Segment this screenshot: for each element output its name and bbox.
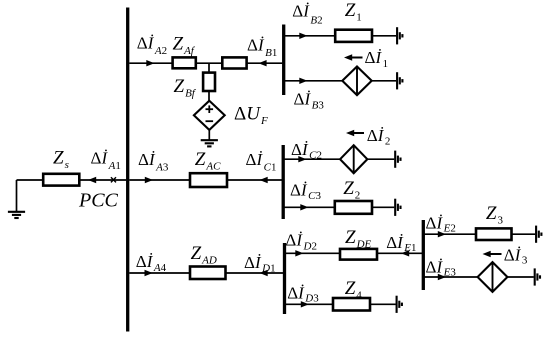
wire: Z_DE to bus E (377, 252, 422, 254)
arrow dI_3 free (488, 253, 502, 255)
arrow dI_E1 (401, 250, 409, 256)
arrow dI_C1 (260, 177, 268, 183)
resistor Z1 (335, 30, 372, 42)
resistor Z_Af (173, 57, 196, 68)
svg-text:ZAC: ZAC (195, 149, 221, 173)
svg-text:ZAD: ZAD (191, 243, 217, 267)
wire: source branch to PCC (17, 179, 44, 181)
wire: Z_AC to bus C (227, 179, 282, 181)
ground: E3 (534, 268, 536, 285)
wire: D2 branch (286, 252, 340, 254)
wire: source to ground (208, 130, 210, 140)
arrow dI_A4 (145, 270, 153, 276)
svg-text:Zs: Zs (53, 148, 69, 172)
wire: C2 branch (285, 158, 341, 160)
svg-text:ΔİC1: ΔİC1 (246, 150, 277, 174)
svg-text:ΔİD2: ΔİD2 (285, 231, 317, 253)
arrow dI_A1 (88, 177, 96, 183)
wire: Z1 to ground (372, 35, 396, 37)
wire: source to ground B3 (372, 80, 397, 82)
resistor Z_Bf vertical (203, 73, 215, 91)
wire: PCC to Z_AD (129, 272, 190, 274)
svg-text:Z4: Z4 (345, 278, 363, 302)
svg-text:ΔİA4: ΔİA4 (136, 252, 167, 274)
svg-text:ΔİD3: ΔİD3 (287, 284, 319, 305)
wire: Z_Bf to source (208, 91, 210, 101)
source dI_3 diamond (478, 262, 508, 292)
ground: B2 (396, 27, 398, 44)
svg-text:ΔİA3: ΔİA3 (138, 150, 169, 174)
resistor Z_DE (340, 249, 377, 260)
ground: E2 (535, 226, 537, 243)
svg-text:ΔİE2: ΔİE2 (426, 214, 456, 235)
resistor Z_AC (190, 173, 227, 187)
bus C (282, 145, 285, 219)
arrow dI_D3 (301, 301, 309, 307)
resistor fault second box (222, 57, 246, 68)
resistor Z2 (335, 201, 372, 214)
wire: Z_Af to fault node (196, 62, 223, 64)
breaker X mark (111, 177, 116, 182)
arrow dI_E2 (438, 231, 446, 237)
wire: E2 branch (425, 233, 477, 235)
source dI_2 diamond (340, 145, 367, 173)
svg-text:Δİ1: Δİ1 (365, 48, 389, 70)
wire: B2 branch (285, 35, 335, 37)
wire: E3 branch (425, 276, 478, 278)
ground: B3 (396, 72, 398, 89)
wire: D3 branch (286, 303, 333, 305)
resistor Z3 (476, 228, 512, 240)
svg-text:ΔİC2: ΔİC2 (291, 140, 322, 162)
svg-text:ΔİB1: ΔİB1 (247, 36, 277, 60)
bus B (282, 25, 285, 96)
wire: C3 branch (285, 206, 335, 208)
svg-text:Z2: Z2 (343, 178, 360, 202)
wire: second box to bus B (247, 62, 283, 64)
svg-text:ΔİA1: ΔİA1 (91, 149, 121, 173)
arrow dI_2 free (351, 132, 364, 134)
svg-text:Δİ3: Δİ3 (504, 246, 528, 267)
resistor Z4 (333, 298, 370, 311)
arrow dI_E3 (438, 274, 446, 280)
bus E (422, 220, 425, 290)
ground: D3 (396, 296, 398, 313)
svg-text:Δİ2: Δİ2 (367, 126, 391, 148)
arrow dI_A3 (145, 177, 153, 183)
resistor Z_AD (190, 267, 226, 280)
wire: Z_AD to bus D (226, 272, 284, 274)
ground: C2 (394, 151, 396, 168)
wire: Z3 to ground (512, 233, 536, 235)
arrow dI_B2 (299, 33, 307, 39)
svg-text:ZBf: ZBf (174, 76, 197, 100)
svg-text:ZDE: ZDE (345, 227, 372, 251)
wire: fault node drop (208, 63, 210, 72)
wire: PCC to Z_Af (129, 62, 172, 64)
plus sign (206, 108, 214, 110)
resistor Zs (43, 174, 79, 186)
wire: source to ground C2 (367, 158, 394, 160)
ground: under dU_F (201, 139, 218, 141)
wire: PCC to Z_AC (129, 179, 190, 181)
svg-text:ΔİB3: ΔİB3 (294, 90, 325, 112)
bus D (283, 243, 286, 314)
svg-text:ZAf: ZAf (173, 34, 196, 58)
svg-text:Z3: Z3 (486, 203, 504, 227)
source dU_F diamond (194, 101, 225, 130)
minus sign (206, 120, 214, 122)
ground: C3 (394, 199, 396, 216)
svg-text:PCC: PCC (78, 190, 119, 212)
svg-text:ΔUF: ΔUF (234, 103, 268, 127)
wire: B3 branch (285, 80, 342, 82)
svg-text:ΔİC3: ΔİC3 (290, 181, 321, 203)
ground: left source ground (16, 180, 18, 212)
bus PCC main (126, 8, 129, 332)
wire: Z2 to ground (372, 206, 394, 208)
svg-text:ΔİD1: ΔİD1 (244, 253, 276, 275)
svg-text:ΔİE1: ΔİE1 (386, 233, 416, 254)
arrow dI_A2 (146, 60, 154, 66)
arrow dI_B3 (299, 78, 307, 84)
svg-text:ΔİE3: ΔİE3 (426, 258, 457, 279)
arrow dI_1 free (349, 57, 363, 59)
arrow dI_C2 (298, 156, 306, 162)
svg-text:ΔİB2: ΔİB2 (292, 2, 322, 27)
svg-text:Z1: Z1 (345, 0, 362, 24)
svg-text:ΔİA2: ΔİA2 (137, 34, 167, 58)
arrow dI_D2 (295, 250, 303, 256)
source dI_1 diamond (342, 67, 371, 96)
wire: Z4 to ground (370, 303, 396, 305)
wire: source to ground E3 (507, 276, 533, 278)
arrow dI_B1 (258, 60, 266, 66)
arrow dI_C3 (300, 204, 308, 210)
arrow dI_D1 (260, 270, 268, 276)
